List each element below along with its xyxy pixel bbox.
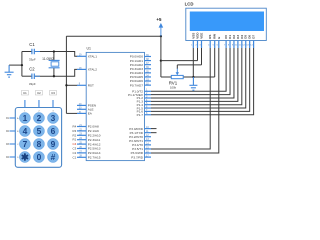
wire XTAL2 net: [34, 69, 77, 76]
capacitor C2: [29, 66, 40, 86]
wire VEE drop from LCD pin 3: [201, 48, 203, 65]
pin 2 P1.1/T2EX: [128, 92, 151, 97]
potentiometer RV1: [169, 69, 184, 90]
svg-text:100k: 100k: [170, 85, 177, 89]
svg-text:7: 7: [23, 139, 28, 149]
svg-text:P2.5/A13: P2.5/A13: [88, 147, 101, 151]
svg-text:C1: C1: [23, 91, 27, 95]
svg-text:RS: RS: [208, 35, 212, 39]
svg-text:P2.2/A10: P2.2/A10: [88, 134, 101, 138]
wire pot right lead to RW: [183, 76, 215, 78]
ground below potentiometer: [189, 77, 197, 90]
ground at crystal bus: [5, 65, 14, 77]
svg-text:XTAL2: XTAL2: [88, 68, 98, 72]
button key 2: [33, 113, 44, 124]
wire XTAL1 net: [34, 52, 77, 57]
button key 9: [48, 139, 59, 150]
wire D3 run to P1.3: [151, 48, 238, 101]
svg-text:11.0592: 11.0592: [42, 57, 54, 61]
node junction +5 rail tee: [160, 35, 162, 37]
svg-text:C3: C3: [72, 147, 76, 151]
pin 27 P2.6/A14: [77, 150, 101, 155]
power +5: [156, 17, 163, 36]
button key star: [19, 152, 30, 163]
pin row 4 of keypad: [10, 156, 16, 158]
pin 17 P3.7/RD: [131, 154, 151, 159]
svg-text:P1.7: P1.7: [137, 113, 144, 117]
svg-text:C1: C1: [72, 155, 76, 159]
pin 10 D3 of LCD: [235, 35, 240, 48]
svg-text:5: 5: [37, 126, 42, 136]
wire VSS drop from LCD pin 1: [192, 48, 194, 77]
pin 7 P1.6: [137, 109, 151, 114]
node net label C3: [49, 91, 56, 96]
wire bus from +5 elbow down to EA: [65, 36, 67, 113]
pin 2 VDD of LCD: [195, 32, 199, 48]
svg-text:P2.4/A12: P2.4/A12: [88, 142, 101, 146]
wire VDD horizontal: [161, 60, 198, 62]
wire RW drop from LCD pin 5: [214, 48, 216, 77]
wire D4 run to P1.4: [151, 48, 242, 105]
pin 6 P1.5: [137, 105, 151, 110]
wire RS run LCD pin 4 to P3.5: [151, 48, 210, 149]
pin 22 P2.1/A9: [77, 128, 99, 133]
node net label C2: [35, 91, 42, 96]
pin 9 RST: [77, 83, 94, 88]
wire crystal top lead: [53, 52, 55, 61]
svg-text:+5: +5: [156, 17, 162, 22]
button key 4: [19, 126, 30, 137]
pin 1 P1.0/T2: [132, 89, 151, 94]
svg-text:XTAL1: XTAL1: [88, 55, 98, 59]
pin 16 P3.6/WR: [131, 150, 151, 155]
node net label C1: [21, 91, 28, 96]
wire crystal bottom lead: [53, 68, 55, 76]
wire +5 rail horizontal: [66, 35, 160, 37]
wire +5 column down to pot: [160, 36, 162, 77]
pin 30 ALE: [77, 107, 94, 112]
pin 26 P2.5/A13: [77, 146, 101, 151]
pin 29 PSEN: [77, 103, 96, 108]
pin 12 P3.2/INT0: [129, 134, 151, 139]
pin 4 P1.3: [137, 99, 151, 104]
svg-text:U1: U1: [87, 47, 92, 51]
LCD display module: [185, 2, 267, 41]
svg-text:P2.0/A8: P2.0/A8: [88, 125, 99, 129]
pin 12 D5 of LCD: [242, 35, 247, 48]
button key 7: [19, 139, 30, 150]
pin 10 P3.0/RXD: [129, 126, 151, 131]
pin 3 VEE of LCD: [199, 33, 203, 48]
svg-text:C4: C4: [72, 142, 76, 146]
pin 5 RW of LCD: [213, 34, 217, 48]
crystal X1: [42, 57, 59, 68]
svg-text:P3.7/RD: P3.7/RD: [131, 155, 143, 159]
wire D6 run to P1.6: [151, 48, 250, 111]
pin 34 P0.5/AD5: [130, 74, 151, 79]
svg-text:R3: R3: [72, 129, 76, 133]
pin 38 P0.1/AD1: [130, 58, 151, 63]
svg-text:P2.7/A15: P2.7/A15: [88, 156, 101, 160]
pin 3 P1.2: [137, 95, 151, 100]
svg-text:8: 8: [37, 139, 42, 149]
pin 13 D6 of LCD: [246, 35, 251, 48]
node junction RST on bus: [65, 84, 67, 86]
pin row 3 of keypad: [10, 143, 16, 145]
wire C1 left lead: [22, 51, 32, 53]
pin column 3 of keypad: [52, 100, 54, 108]
svg-text:#: #: [51, 152, 56, 162]
pin column 2 of keypad: [38, 100, 40, 108]
svg-text:C2: C2: [37, 91, 41, 95]
pin 31 EA: [77, 111, 93, 116]
svg-text:4: 4: [23, 126, 28, 136]
wire D7 run to P1.7: [151, 48, 254, 115]
svg-text:VEE: VEE: [200, 33, 204, 39]
wire EA connection: [66, 112, 77, 114]
pin 4 RS of LCD: [208, 35, 212, 48]
svg-text:C2: C2: [29, 66, 35, 71]
pin row 2 of keypad: [10, 130, 16, 132]
svg-text:R4: R4: [72, 125, 76, 129]
svg-text:C2: C2: [72, 151, 76, 155]
microcontroller U1: [86, 52, 144, 160]
svg-text:P2.3/A11: P2.3/A11: [88, 138, 101, 142]
pin 13 P3.3/INT1: [129, 138, 151, 143]
pin 25 P2.4/A12: [77, 142, 101, 147]
wire capacitor bus vertical: [21, 52, 23, 77]
wire VEE horizontal to wiper: [177, 64, 201, 66]
pin 15 P3.5/T1: [132, 146, 151, 151]
pin 37 P0.2/AD2: [130, 62, 151, 67]
button key hash: [48, 152, 59, 163]
svg-text:P2.6/A14: P2.6/A14: [88, 151, 101, 155]
svg-text:9: 9: [51, 139, 56, 149]
node junction ground tap on bus: [21, 64, 23, 66]
pin 32 P0.7/AD7: [130, 83, 151, 88]
svg-text:R1: R1: [72, 138, 76, 142]
svg-text:R2: R2: [72, 133, 76, 137]
svg-text:P2.1/A9: P2.1/A9: [88, 129, 99, 133]
pin 6 E of LCD: [217, 37, 221, 48]
node junction ground node: [192, 76, 194, 78]
wire pot left lead: [161, 76, 171, 78]
wire D0 run to P1.0: [151, 48, 226, 91]
pin 8 D1 of LCD: [228, 35, 232, 48]
wire D5 run to P1.5: [151, 48, 246, 108]
pin row 1 of keypad: [10, 117, 16, 119]
pin 11 P3.1/TXD: [130, 130, 151, 135]
pin 11 D4 of LCD: [239, 35, 244, 48]
wire VDD drop from LCD pin 2: [197, 48, 199, 61]
button key 5: [33, 126, 44, 137]
node junction crystal top tee: [53, 50, 55, 52]
svg-text:33pF: 33pF: [29, 57, 36, 61]
svg-text:1: 1: [23, 113, 28, 123]
svg-text:C3: C3: [51, 91, 55, 95]
wire wiper drop: [176, 65, 178, 69]
svg-text:3: 3: [51, 113, 56, 123]
svg-text:2: 2: [37, 113, 42, 123]
button key 8: [33, 139, 44, 150]
wire ground tap: [9, 64, 22, 66]
button key 3: [48, 113, 59, 124]
pin 14 D7 of LCD: [250, 35, 255, 48]
button key 0: [33, 152, 44, 163]
svg-text:C1: C1: [29, 42, 35, 47]
svg-text:33pF: 33pF: [29, 82, 36, 86]
node junction crystal bottom tee: [53, 75, 55, 77]
keypad KP1: [15, 108, 61, 168]
wire RST tap: [66, 84, 77, 86]
svg-text:E: E: [217, 37, 221, 39]
wire C2 left lead: [22, 75, 32, 77]
svg-text:RST: RST: [88, 84, 94, 88]
pin 21 P2.0/A8: [77, 124, 99, 129]
pin 8 P1.7: [137, 112, 151, 117]
svg-text:0: 0: [37, 152, 42, 162]
wire E run LCD pin 6 to P3.6: [151, 48, 219, 153]
pin 5 P1.4: [137, 102, 151, 107]
button key 1: [19, 113, 30, 124]
capacitor C1: [29, 42, 40, 61]
pin 36 P0.3/AD3: [130, 66, 151, 71]
pin 19 XTAL1: [77, 54, 97, 59]
pin 33 P0.6/AD6: [130, 78, 151, 83]
wire stub on P3.1: [151, 132, 157, 134]
svg-text:6: 6: [51, 126, 56, 136]
node junction VDD tee: [160, 59, 162, 61]
pin 24 P2.3/A11: [77, 137, 100, 142]
wire stub on P3.0: [151, 128, 157, 130]
wire D1 run to P1.1: [151, 48, 230, 95]
pin 23 P2.2/A10: [77, 133, 101, 138]
svg-text:LCD: LCD: [185, 2, 194, 7]
pin 28 P2.7/A15: [77, 155, 101, 160]
pin 18 XTAL2: [77, 67, 97, 72]
pin column 1 of keypad: [24, 100, 26, 108]
svg-text:P0.7/AD7: P0.7/AD7: [130, 83, 144, 87]
pin 7 D0 of LCD: [224, 35, 228, 48]
pin 1 VSS of LCD: [191, 33, 195, 48]
pin 39 P0.0/AD0: [130, 54, 151, 59]
button key 6: [48, 126, 59, 137]
wire D2 run to P1.2: [151, 48, 234, 98]
svg-text:D7: D7: [252, 35, 256, 39]
pin 35 P0.4/AD4: [130, 70, 151, 75]
pin 9 D2 of LCD: [232, 35, 236, 48]
pin 14 P3.4/T0: [132, 142, 151, 147]
